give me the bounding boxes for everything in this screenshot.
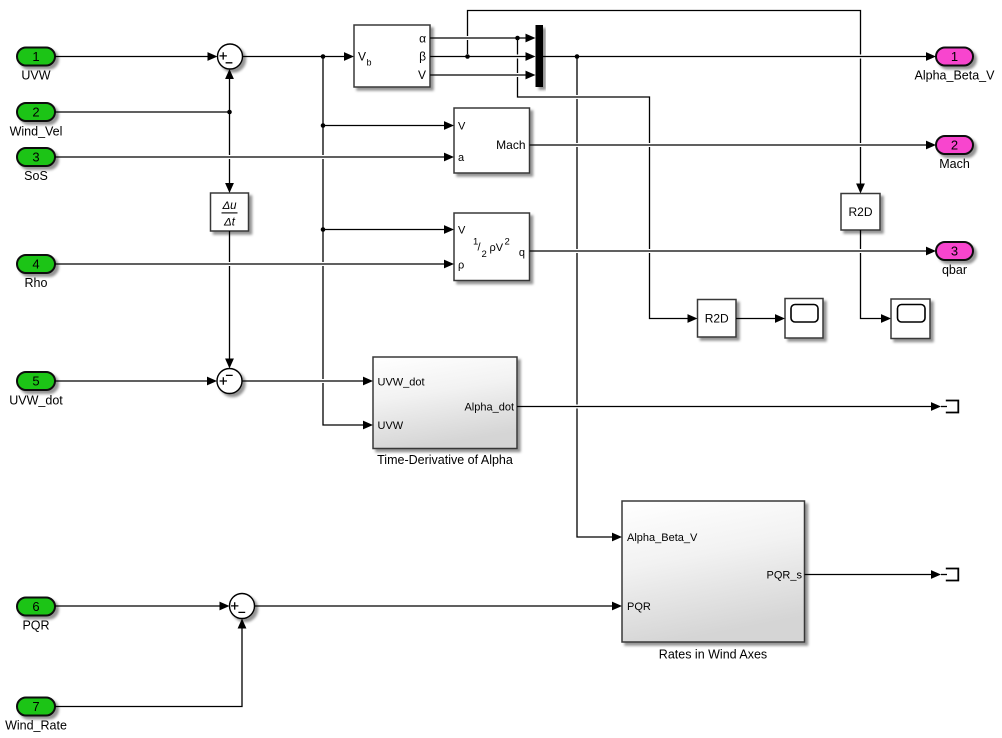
svg-text:Wind_Vel: Wind_Vel: [10, 125, 63, 139]
wire junction up to S1 minus input: [225, 69, 234, 112]
wire Vb alpha to mux: [430, 34, 536, 43]
wire UVW_dot port5 to S2: [55, 377, 217, 386]
wire Rho port4 to rho input: [55, 260, 454, 269]
wire mux output to outport 1: [543, 52, 937, 61]
svg-text:R2D: R2D: [705, 312, 729, 326]
wire alpha tap down over to R2D middle: [518, 38, 698, 323]
terminator T2: [941, 569, 958, 581]
wire to dyn pressure V input: [323, 225, 454, 234]
node junction beta tap: [465, 54, 470, 59]
svg-text:2: 2: [505, 237, 510, 248]
wire Alpha_dot to terminator T1: [517, 402, 941, 411]
svg-text:SoS: SoS: [24, 169, 48, 183]
svg-text:Alpha_dot: Alpha_dot: [464, 402, 514, 414]
inport 6 PQR: [17, 598, 55, 633]
svg-text:3: 3: [32, 150, 39, 165]
svg-text:Rates in Wind Axes: Rates in Wind Axes: [659, 648, 767, 662]
wire Alpha_Beta_V tap down to Rates in Wind Axes: [577, 57, 622, 542]
svg-text:4: 4: [32, 257, 39, 272]
svg-text:2: 2: [482, 249, 487, 260]
svg-text:PQR: PQR: [22, 619, 49, 633]
svg-text:Rho: Rho: [25, 276, 48, 290]
mux: [536, 25, 544, 87]
wire SoS port3 to Mach a input: [55, 153, 454, 162]
inport 7 Wind_Rate: [5, 698, 67, 733]
svg-text:R2D: R2D: [848, 205, 872, 219]
svg-text:2: 2: [32, 105, 39, 120]
svg-text:V: V: [458, 225, 466, 237]
svg-text:β: β: [419, 50, 426, 64]
svg-text:V: V: [418, 68, 426, 82]
node junction to Mach V: [321, 123, 326, 128]
sum block S2: [217, 369, 242, 394]
svg-text:UVW: UVW: [21, 69, 50, 83]
subsystem Rates in Wind Axes: [622, 501, 805, 662]
terminator T1: [941, 401, 958, 413]
block Delta u / Delta t: [211, 193, 249, 231]
svg-text:V: V: [358, 50, 366, 64]
sum block S1: [218, 44, 243, 69]
svg-text:6: 6: [32, 599, 39, 614]
wire q output to outport 3: [530, 247, 937, 256]
gain R2D middle: [698, 300, 737, 338]
svg-text:PQR: PQR: [627, 601, 651, 613]
svg-text:a: a: [458, 152, 465, 164]
wire to Mach V input: [323, 121, 454, 130]
scope 1: [785, 299, 823, 339]
wire R2D right down to scope 2: [861, 230, 892, 323]
svg-text:UVW_dot: UVW_dot: [9, 394, 63, 408]
wire Rates PQR_s output to terminator T2: [805, 570, 942, 579]
outport 1 Alpha_Beta_V: [915, 48, 996, 83]
svg-text:3: 3: [951, 244, 958, 259]
svg-text:Alpha_Beta_V: Alpha_Beta_V: [915, 69, 996, 83]
inport 3 SoS: [17, 148, 55, 183]
scope 2: [891, 299, 930, 339]
wire R2D middle to scope 1: [736, 314, 785, 323]
svg-text:5: 5: [32, 374, 39, 389]
node junction alpha tap: [515, 36, 520, 41]
wire Vb beta to mux: [430, 52, 536, 61]
svg-text:Mach: Mach: [939, 157, 970, 171]
node junction Alpha_Beta_V tap: [575, 54, 580, 59]
svg-text:UVW_dot: UVW_dot: [378, 377, 425, 389]
outport 3 qbar: [936, 242, 973, 277]
wire S1 to Vb: [243, 52, 355, 61]
sum block S3: [230, 594, 255, 619]
svg-text:Time-Derivative of Alpha: Time-Derivative of Alpha: [377, 453, 513, 467]
wire PQR port6 to S3: [55, 602, 230, 611]
svg-text:2: 2: [951, 138, 958, 153]
svg-text:qbar: qbar: [942, 263, 967, 277]
block Mach: [454, 108, 530, 173]
wire S2 to Time-Derivative UVW_dot input: [242, 377, 373, 386]
wire Wind_Rate port7 up to S3 minus input: [55, 619, 246, 707]
svg-text:Δt: Δt: [223, 217, 236, 229]
node junction on S1-Vb wire: [321, 54, 326, 59]
svg-text:1: 1: [32, 49, 39, 64]
inport 2 Wind_Vel: [10, 103, 63, 139]
svg-text:V: V: [458, 121, 466, 133]
inport 5 UVW_dot: [9, 372, 63, 408]
wire Vb V to mux: [430, 71, 536, 80]
wire S3 to Rates PQR input: [255, 602, 623, 611]
node junction Wind_Vel: [227, 110, 232, 115]
svg-text:Mach: Mach: [496, 138, 525, 152]
svg-text:q: q: [519, 247, 525, 259]
svg-text:Δu: Δu: [221, 200, 237, 212]
wire Wind_Vel port2 to junction: [55, 111, 230, 113]
node junction to dyn pressure V: [321, 227, 326, 232]
block dynamic pressure 1/2 rho V^2: [454, 213, 530, 281]
svg-text:b: b: [367, 58, 372, 68]
gain R2D right: [841, 194, 880, 231]
svg-text:α: α: [419, 32, 426, 46]
svg-text:UVW: UVW: [378, 420, 404, 432]
wire UVW port1 to S1: [55, 52, 218, 61]
inport 4 Rho: [17, 255, 55, 290]
inport 1 UVW: [17, 48, 55, 83]
svg-text:ρ: ρ: [458, 260, 464, 272]
svg-text:7: 7: [32, 699, 39, 714]
svg-text:ρV: ρV: [490, 242, 504, 254]
svg-text:PQR_s: PQR_s: [767, 570, 803, 582]
svg-text:1: 1: [951, 49, 958, 64]
wire Delta block to S2 minus input: [225, 231, 234, 369]
svg-text:Wind_Rate: Wind_Rate: [5, 719, 67, 733]
wire airspeed tap down to Time-Derivative UVW input: [323, 57, 373, 430]
wire junction down to Delta block: [225, 112, 234, 193]
block Vb (alpha beta V computation): [354, 25, 430, 87]
wire Mach output to outport 2: [530, 141, 937, 150]
wire beta tap up over to R2D right: [468, 11, 865, 194]
svg-text:Alpha_Beta_V: Alpha_Beta_V: [627, 532, 698, 544]
subsystem Time-Derivative of Alpha: [373, 357, 517, 467]
outport 2 Mach: [936, 136, 973, 171]
